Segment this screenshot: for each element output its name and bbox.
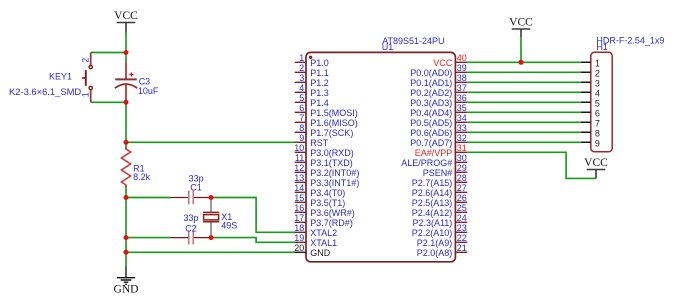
svg-text:27: 27 xyxy=(457,183,467,193)
svg-text:11: 11 xyxy=(295,153,304,163)
svg-text:P3.7(RD#): P3.7(RD#) xyxy=(310,218,353,228)
svg-text:P0.2(AD2): P0.2(AD2) xyxy=(410,88,452,98)
svg-text:P3.5(T1): P3.5(T1) xyxy=(310,198,345,208)
svg-text:24: 24 xyxy=(457,213,467,223)
svg-text:38: 38 xyxy=(457,73,467,83)
svg-text:33: 33 xyxy=(457,123,467,133)
svg-text:C1: C1 xyxy=(190,183,202,193)
svg-text:49S: 49S xyxy=(221,221,237,231)
svg-text:22: 22 xyxy=(457,233,467,243)
svg-text:VCC: VCC xyxy=(433,58,453,68)
svg-text:10: 10 xyxy=(294,143,304,153)
svg-text:13: 13 xyxy=(294,173,304,183)
svg-text:RST: RST xyxy=(310,138,329,148)
svg-text:P2.5(A13): P2.5(A13) xyxy=(412,198,453,208)
svg-text:9: 9 xyxy=(595,139,600,149)
svg-text:P0.1(AD1): P0.1(AD1) xyxy=(410,78,452,88)
svg-text:8: 8 xyxy=(595,129,600,139)
svg-text:P2.6(A14): P2.6(A14) xyxy=(412,188,453,198)
svg-text:P1.4: P1.4 xyxy=(310,98,329,108)
svg-text:C3: C3 xyxy=(139,76,151,86)
svg-text:39: 39 xyxy=(457,63,467,73)
svg-text:P3.2(INT0#): P3.2(INT0#) xyxy=(310,168,359,178)
svg-text:4: 4 xyxy=(595,89,600,99)
svg-text:P0.3(AD3): P0.3(AD3) xyxy=(410,98,452,108)
svg-text:2: 2 xyxy=(81,58,91,63)
svg-text:P1.2: P1.2 xyxy=(310,78,329,88)
svg-text:5: 5 xyxy=(595,99,600,109)
svg-text:P0.7(AD7): P0.7(AD7) xyxy=(410,138,452,148)
svg-text:VCC: VCC xyxy=(584,157,608,169)
svg-text:P1.3: P1.3 xyxy=(310,88,329,98)
svg-text:P0.6(AD6): P0.6(AD6) xyxy=(410,128,452,138)
svg-text:P2.1(A9): P2.1(A9) xyxy=(417,238,453,248)
svg-text:XTAL2: XTAL2 xyxy=(310,228,337,238)
svg-text:P3.0(RXD): P3.0(RXD) xyxy=(310,148,354,158)
svg-text:H1: H1 xyxy=(596,42,608,52)
svg-text:12: 12 xyxy=(294,163,304,173)
svg-text:P0.4(AD4): P0.4(AD4) xyxy=(410,108,452,118)
svg-text:P1.0: P1.0 xyxy=(310,58,329,68)
svg-text:15: 15 xyxy=(294,193,304,203)
svg-text:33p: 33p xyxy=(184,213,199,223)
svg-text:28: 28 xyxy=(457,173,467,183)
svg-text:P1.7(SCK): P1.7(SCK) xyxy=(310,128,353,138)
svg-text:8: 8 xyxy=(299,123,304,133)
svg-text:P1.1: P1.1 xyxy=(310,68,329,78)
svg-text:1: 1 xyxy=(595,59,600,69)
svg-text:P2.4(A12): P2.4(A12) xyxy=(412,208,453,218)
svg-text:14: 14 xyxy=(294,183,304,193)
svg-text:40: 40 xyxy=(457,53,467,63)
svg-text:20: 20 xyxy=(294,243,304,253)
svg-text:P2.0(A8): P2.0(A8) xyxy=(417,248,453,258)
svg-text:P1.5(MOSI): P1.5(MOSI) xyxy=(310,108,358,118)
svg-text:P2.3(A11): P2.3(A11) xyxy=(412,218,452,228)
svg-text:36: 36 xyxy=(457,93,467,103)
svg-text:ALE/PROG#: ALE/PROG# xyxy=(401,158,452,168)
svg-text:P0.0(AD0): P0.0(AD0) xyxy=(410,68,452,78)
svg-text:U1: U1 xyxy=(382,42,394,52)
svg-text:29: 29 xyxy=(457,163,467,173)
svg-text:P1.6(MISO): P1.6(MISO) xyxy=(310,118,358,128)
svg-text:16: 16 xyxy=(294,203,304,213)
svg-text:7: 7 xyxy=(299,113,304,123)
svg-text:31: 31 xyxy=(457,143,467,153)
svg-text:PSEN#: PSEN# xyxy=(423,168,453,178)
svg-text:GND: GND xyxy=(310,248,331,258)
svg-text:VCC: VCC xyxy=(509,17,533,29)
svg-text:21: 21 xyxy=(457,243,467,253)
svg-text:3: 3 xyxy=(299,73,304,83)
svg-text:37: 37 xyxy=(457,83,467,93)
svg-text:KEY1: KEY1 xyxy=(49,72,72,82)
svg-text:P3.1(TXD): P3.1(TXD) xyxy=(310,158,353,168)
svg-text:32: 32 xyxy=(457,133,467,143)
svg-text:C2: C2 xyxy=(185,223,197,233)
svg-text:P3.6(WR#): P3.6(WR#) xyxy=(310,208,355,218)
svg-text:P0.5(AD5): P0.5(AD5) xyxy=(410,118,452,128)
svg-text:8.2k: 8.2k xyxy=(133,172,151,182)
svg-text:GND: GND xyxy=(114,284,139,296)
svg-text:2: 2 xyxy=(299,63,304,73)
svg-text:1: 1 xyxy=(299,53,304,63)
svg-text:19: 19 xyxy=(294,233,304,243)
svg-text:P2.2(A10): P2.2(A10) xyxy=(412,228,453,238)
svg-text:6: 6 xyxy=(595,109,600,119)
svg-text:1: 1 xyxy=(81,92,91,97)
svg-text:P3.3(INT1#): P3.3(INT1#) xyxy=(310,178,359,188)
svg-text:26: 26 xyxy=(457,193,467,203)
svg-text:17: 17 xyxy=(294,213,304,223)
svg-text:4: 4 xyxy=(299,83,304,93)
svg-text:XTAL1: XTAL1 xyxy=(310,238,337,248)
svg-text:10uF: 10uF xyxy=(138,86,159,96)
svg-text:EA#/VPP: EA#/VPP xyxy=(415,148,453,158)
svg-text:35: 35 xyxy=(457,103,467,113)
svg-text:P3.4(T0): P3.4(T0) xyxy=(310,188,345,198)
svg-text:P2.7(A15): P2.7(A15) xyxy=(412,178,453,188)
svg-text:25: 25 xyxy=(457,203,467,213)
svg-text:2: 2 xyxy=(595,69,600,79)
svg-text:K2-3.6×6.1_SMD: K2-3.6×6.1_SMD xyxy=(9,86,81,97)
svg-text:6: 6 xyxy=(299,103,304,113)
svg-text:VCC: VCC xyxy=(114,10,138,22)
svg-text:23: 23 xyxy=(457,223,467,233)
svg-text:5: 5 xyxy=(299,93,304,103)
svg-text:30: 30 xyxy=(457,153,467,163)
svg-text:18: 18 xyxy=(294,223,304,233)
svg-text:7: 7 xyxy=(595,119,600,129)
svg-text:3: 3 xyxy=(595,79,600,89)
svg-text:34: 34 xyxy=(457,113,467,123)
svg-text:9: 9 xyxy=(299,133,304,143)
